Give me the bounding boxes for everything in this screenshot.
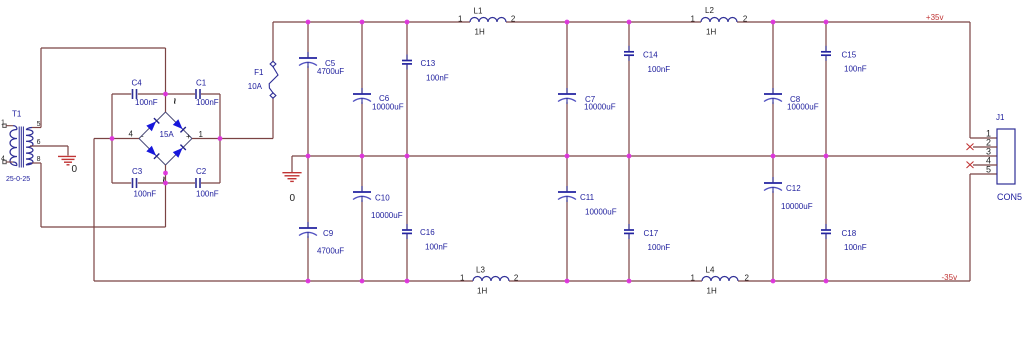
svg-text:100nF: 100nF	[425, 243, 448, 252]
svg-text:L2: L2	[705, 6, 714, 15]
svg-text:C1: C1	[196, 79, 207, 88]
svg-text:F1: F1	[254, 68, 264, 77]
svg-text:0: 0	[290, 193, 296, 204]
junction at bridge minus node	[110, 136, 115, 141]
svg-text:100nF: 100nF	[196, 190, 219, 199]
pin 3 stub of J1	[986, 147, 991, 157]
svg-text:10000uF: 10000uF	[371, 211, 403, 220]
svg-text:100nF: 100nF	[844, 243, 867, 252]
svg-text:100nF: 100nF	[648, 65, 671, 74]
connector J1 CON5	[996, 113, 1022, 202]
no-connect X on pin 2	[967, 144, 974, 151]
junctions on -35v rail	[306, 279, 829, 284]
fuse F1 10A	[248, 61, 278, 98]
net label +35v	[926, 13, 944, 22]
wire T1 pin6 center tap to ground	[30, 146, 68, 156]
svg-text:5: 5	[986, 165, 991, 175]
svg-text:-: -	[141, 132, 144, 141]
svg-text:L4: L4	[706, 266, 715, 275]
inductor L3 1H	[460, 266, 519, 296]
capacitor C11 10000uF	[558, 186, 617, 217]
svg-text:6: 6	[37, 139, 41, 146]
capacitor C6 10000uF	[353, 88, 404, 112]
wire bridge minus (pin4) to left drop	[94, 138, 139, 140]
svg-text:100nF: 100nF	[426, 74, 449, 83]
svg-text:T1: T1	[12, 110, 22, 119]
pin 5 stub of J1	[986, 165, 991, 175]
wire filter column x=773	[772, 22, 774, 281]
svg-text:1: 1	[691, 274, 696, 283]
pin 4 stub of J1	[973, 156, 997, 166]
wire +35v right drop to J1 pin1	[970, 22, 997, 138]
wire fuse to top rail	[272, 22, 274, 62]
capacitor C17 100nF	[624, 224, 670, 252]
ground (0) at mid rail	[282, 173, 301, 204]
wire left drop to -35v rail	[93, 139, 95, 282]
svg-text:L3: L3	[476, 266, 485, 275]
svg-text:1: 1	[1, 120, 5, 127]
wire T1 pin5 to bridge top (via top-left loop)	[32, 48, 166, 128]
junction at bridge top AC node	[163, 92, 168, 97]
wire filter column x=826	[825, 22, 827, 281]
wire T1 pin8 to bridge bottom (via bottom loop)	[32, 163, 166, 227]
wire bridge box right vertical	[219, 94, 221, 183]
capacitor C9 4700uF	[299, 222, 344, 256]
svg-text:10000uF: 10000uF	[584, 103, 616, 112]
wire mid rail ground stub	[291, 156, 293, 172]
svg-text:100nF: 100nF	[134, 190, 157, 199]
svg-text:C10: C10	[375, 194, 390, 203]
capacitor C1 100nF	[196, 79, 219, 108]
capacitor C4 100nF	[132, 79, 158, 108]
capacitor C16 100nF	[402, 224, 448, 252]
ground (0) at transformer center tap	[58, 156, 78, 175]
svg-text:8: 8	[37, 156, 41, 163]
capacitor C3 100nF	[132, 167, 156, 199]
svg-text:CON5: CON5	[997, 192, 1022, 202]
wire bridge box bottom row	[112, 182, 220, 184]
svg-text:1H: 1H	[706, 28, 716, 37]
svg-text:C13: C13	[421, 59, 436, 68]
wire bridge box left vertical	[111, 94, 113, 183]
capacitor C15 100nF	[821, 46, 867, 74]
svg-text:J1: J1	[996, 113, 1005, 122]
svg-text:1: 1	[460, 274, 465, 283]
wire filter column x=567	[566, 22, 568, 281]
junctions on +35v rail	[306, 20, 829, 25]
svg-text:+35v: +35v	[926, 13, 944, 22]
svg-text:C14: C14	[643, 51, 658, 60]
svg-text:25-0-25: 25-0-25	[6, 176, 30, 183]
svg-text:C9: C9	[323, 229, 334, 238]
capacitor C7 10000uF	[558, 88, 616, 112]
wire filter column x=362	[361, 22, 363, 281]
pin 1 stub of J1	[986, 129, 991, 139]
wire -35v right rise to J1 pin5	[970, 174, 997, 281]
svg-text:4700uF: 4700uF	[317, 67, 344, 76]
svg-text:2: 2	[514, 274, 519, 283]
svg-text:100nF: 100nF	[844, 65, 867, 74]
svg-text:1H: 1H	[475, 28, 485, 37]
svg-text:L1: L1	[474, 7, 483, 16]
svg-text:2: 2	[511, 15, 516, 24]
svg-text:C15: C15	[842, 51, 857, 60]
svg-text:100nF: 100nF	[648, 243, 671, 252]
svg-text:1: 1	[199, 130, 204, 139]
capacitor C2 100nF	[196, 167, 219, 199]
wire filter column x=407	[406, 22, 408, 281]
svg-text:2: 2	[743, 15, 748, 24]
svg-text:C17: C17	[644, 229, 659, 238]
svg-text:10A: 10A	[248, 82, 263, 91]
pin 1 terminal of T1	[1, 120, 13, 128]
wire top +35v rail	[273, 21, 970, 23]
capacitor C5 4700uF	[299, 52, 344, 76]
no-connect X on pin 4	[967, 162, 974, 169]
junction at bridge plus node	[218, 136, 223, 141]
svg-text:C2: C2	[196, 167, 207, 176]
svg-text:C3: C3	[132, 167, 143, 176]
capacitor C10 10000uF	[353, 186, 403, 220]
svg-text:-35v: -35v	[942, 273, 958, 282]
capacitor C12 10000uF	[764, 177, 813, 211]
pin 2 stub of J1	[973, 138, 997, 148]
svg-text:C11: C11	[580, 193, 595, 202]
capacitor C18 100nF	[821, 224, 867, 252]
svg-text:10000uF: 10000uF	[585, 208, 617, 217]
svg-text:1H: 1H	[477, 287, 487, 296]
wire filter column x=629	[628, 22, 630, 281]
svg-text:C16: C16	[420, 228, 435, 237]
svg-text:4700uF: 4700uF	[317, 247, 344, 256]
svg-text:100nF: 100nF	[196, 98, 219, 107]
wire bridge plus (pin1) to fuse column	[192, 98, 273, 139]
net label -35v	[942, 273, 958, 282]
svg-text:C12: C12	[786, 184, 801, 193]
junction at bridge bottom AC node	[163, 171, 168, 186]
svg-text:~: ~	[168, 98, 180, 105]
svg-text:100nF: 100nF	[135, 98, 158, 107]
svg-text:+: +	[186, 132, 191, 141]
svg-text:1: 1	[458, 15, 463, 24]
svg-text:C4: C4	[132, 79, 143, 88]
svg-text:1H: 1H	[707, 287, 717, 296]
transformer T1	[6, 110, 33, 184]
svg-text:4: 4	[1, 156, 5, 163]
svg-text:10000uF: 10000uF	[787, 103, 819, 112]
pin 6 label	[37, 139, 41, 146]
inductor L2 1H	[691, 6, 748, 37]
pin 5 label	[37, 121, 41, 128]
pin 8 label	[37, 156, 41, 163]
svg-text:10000uF: 10000uF	[372, 103, 404, 112]
wire filter column x=308	[307, 22, 309, 281]
wire bridge box top row	[112, 93, 220, 95]
svg-text:4: 4	[129, 130, 134, 139]
pin 4 terminal of T1	[1, 156, 13, 164]
svg-text:0: 0	[72, 164, 78, 175]
bridge rectifier 15A	[129, 94, 204, 183]
svg-text:10000uF: 10000uF	[781, 202, 813, 211]
svg-text:1: 1	[691, 15, 696, 24]
wire mid 0V rail	[292, 155, 997, 157]
svg-text:2: 2	[745, 274, 750, 283]
svg-text:15A: 15A	[160, 130, 175, 139]
svg-text:C18: C18	[842, 229, 857, 238]
capacitor C13 100nF	[402, 55, 449, 83]
inductor L4 1H	[691, 266, 750, 296]
inductor L1 1H	[458, 7, 516, 37]
capacitor C8 10000uF	[764, 88, 819, 112]
junctions on 0V rail	[306, 154, 829, 159]
capacitor C14 100nF	[624, 46, 670, 74]
wire bottom -35v rail	[94, 280, 970, 282]
